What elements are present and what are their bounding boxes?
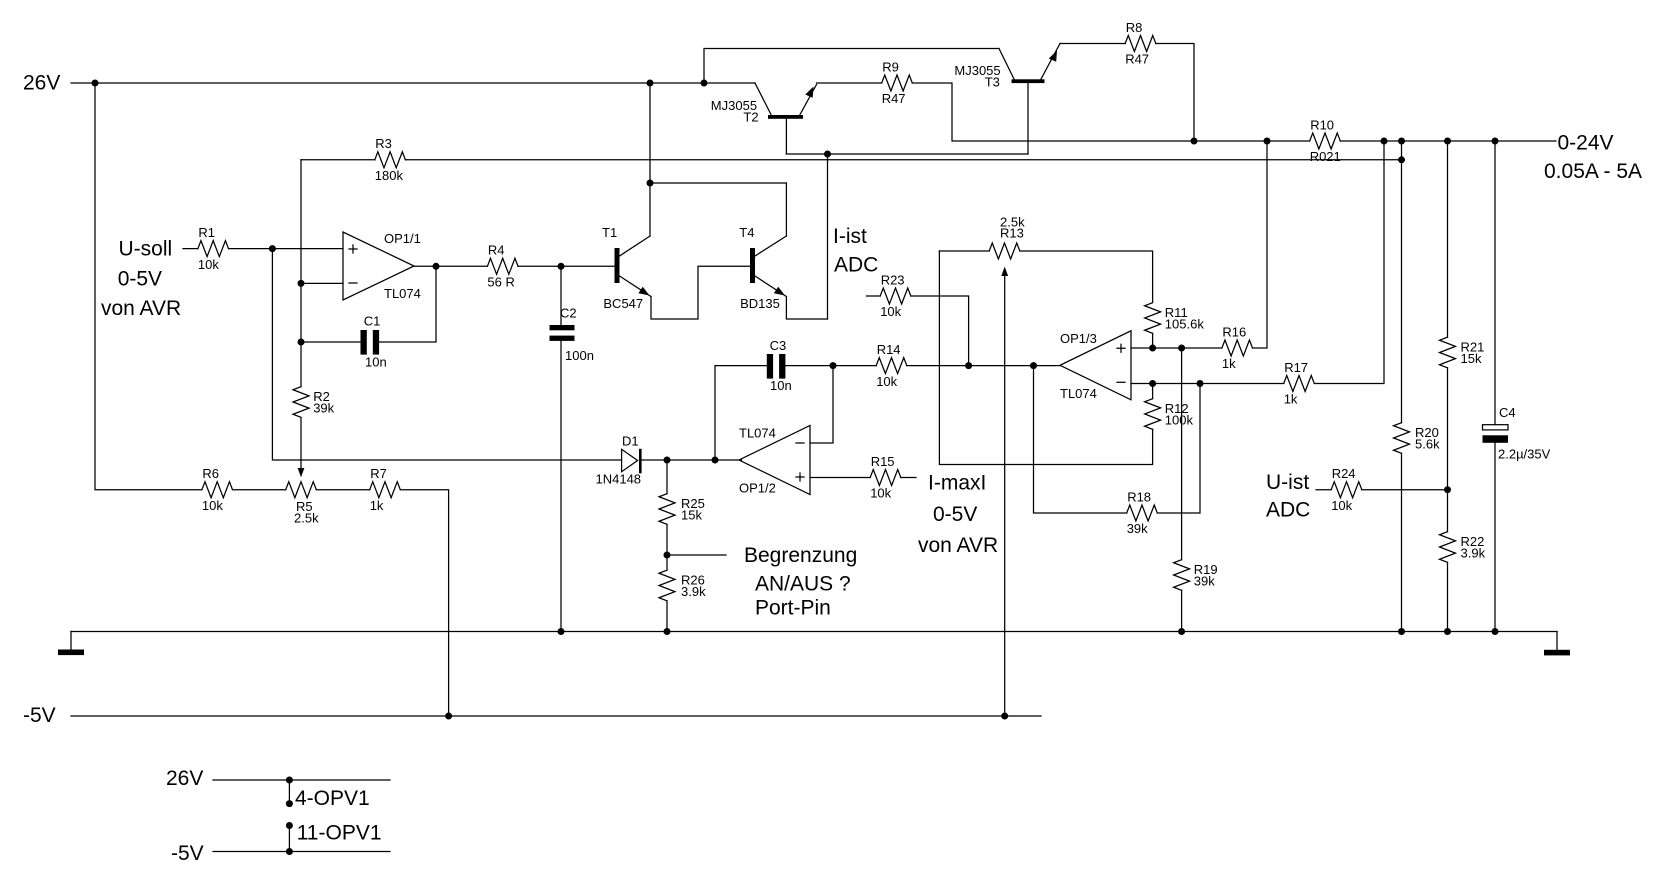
resistor R16: [1222, 324, 1253, 371]
wire R20 drop: [1401, 141, 1403, 423]
svg-text:Port-Pin: Port-Pin: [755, 597, 831, 620]
svg-text:1N4148: 1N4148: [596, 472, 642, 487]
wire R12 to box left: [939, 251, 1152, 465]
potentiometer R13 (2.5k): [989, 215, 1025, 260]
svg-text:von AVR: von AVR: [918, 534, 998, 557]
svg-text:10k: 10k: [1331, 498, 1352, 513]
junction R18 / - input: [1197, 380, 1204, 387]
wire 26V rail segment: [650, 82, 704, 84]
junction ground / R22: [1444, 628, 1451, 635]
wire OP1/3 - to R12: [1152, 384, 1154, 399]
wire to OP1/1 -: [301, 282, 343, 284]
wire OPV1 pin 11 stub: [288, 826, 290, 852]
wire divider stub (Port-Pin): [667, 554, 726, 556]
svg-text:C3: C3: [770, 338, 787, 353]
svg-text:C1: C1: [364, 314, 381, 329]
svg-text:10k: 10k: [880, 304, 901, 319]
junction 26V rail / T3 collector branch: [701, 80, 708, 87]
junction inverting node / C1: [298, 339, 305, 346]
wire R4 to T1 base: [518, 265, 615, 267]
transistor T2 (MJ3055): [711, 83, 817, 154]
wire U-soll input stub: [183, 248, 198, 250]
resistor R25: [659, 494, 705, 525]
svg-text:BD135: BD135: [740, 296, 780, 311]
junction output rail / R20 drop: [1398, 138, 1405, 145]
svg-text:TL074: TL074: [1060, 386, 1097, 401]
wire R1 to OP1/1 +: [229, 248, 344, 250]
svg-text:R1: R1: [198, 225, 215, 240]
wire R5 to R7: [316, 489, 369, 491]
svg-text:10n: 10n: [770, 378, 792, 393]
resistor R3: [375, 136, 406, 183]
wire OP1/1 output: [414, 265, 487, 267]
wire 26V stub: [71, 82, 95, 84]
wire OPV1 pin 4 stub: [288, 780, 290, 804]
svg-text:0-24V: 0-24V: [1558, 132, 1614, 155]
junction R1 / clamp node: [269, 245, 276, 252]
svg-text:AN/AUS ?: AN/AUS ?: [755, 573, 851, 596]
wire down to C2: [560, 266, 562, 325]
junction collector node: [647, 180, 654, 187]
wire R13 to R11: [1020, 251, 1153, 302]
resistor R6: [202, 466, 233, 513]
wire collector tie: [650, 182, 786, 184]
svg-text:T1: T1: [602, 225, 617, 240]
svg-text:-5V: -5V: [23, 704, 56, 727]
resistor R21: [1440, 337, 1485, 368]
wire R3 to output sense: [405, 159, 1401, 161]
wire R9 to output rail: [912, 83, 1194, 141]
wire R21 to R22: [1447, 368, 1449, 532]
resistor R23: [880, 272, 911, 319]
wire R19 to ground: [1181, 590, 1183, 631]
resistor R19: [1174, 560, 1218, 591]
junction output rail / C4 drop: [1492, 138, 1499, 145]
svg-text:10k: 10k: [870, 486, 891, 501]
svg-text:von AVR: von AVR: [101, 297, 181, 320]
resistor R14: [876, 342, 907, 389]
svg-text:T4: T4: [739, 225, 754, 240]
junction 26V/left drop: [92, 80, 99, 87]
wire -5V supply stub: [213, 851, 390, 853]
wire inverting node vertical: [300, 160, 302, 387]
svg-text:C2: C2: [560, 306, 577, 321]
svg-text:180k: 180k: [375, 168, 404, 183]
wire driver emitter riser: [827, 154, 829, 319]
wire 26V rail to T2 collector: [704, 82, 755, 84]
svg-text:OP1/3: OP1/3: [1060, 331, 1097, 346]
svg-text:R24: R24: [1332, 466, 1356, 481]
svg-text:2.2µ/35V: 2.2µ/35V: [1498, 447, 1551, 462]
wire to C1: [301, 341, 361, 343]
junction R23 / OP1/3 output wire: [965, 362, 972, 369]
wire base wire to T3 base: [828, 153, 1029, 155]
junction C3 / OP1/2 - riser: [830, 362, 837, 369]
junction output rail / R16: [1264, 138, 1271, 145]
svg-text:R3: R3: [375, 136, 392, 151]
svg-text:10k: 10k: [202, 498, 223, 513]
junction ground / C4: [1492, 628, 1499, 635]
wire -5V rail: [71, 715, 1041, 717]
wire 26V rail: [95, 82, 650, 84]
junction -5V stub: [286, 848, 293, 855]
resistor R18: [1127, 489, 1158, 536]
transistor T4 (BD135): [739, 225, 786, 311]
wire box to R13: [939, 250, 989, 252]
wire R6 to R5: [233, 489, 286, 491]
svg-text:I-maxI: I-maxI: [928, 472, 986, 495]
svg-text:2.5k: 2.5k: [294, 510, 319, 525]
resistor R11: [1145, 303, 1205, 334]
svg-text:R10: R10: [1310, 117, 1334, 132]
wiper arrow R5: [298, 468, 305, 477]
wire R18 left to output: [1034, 366, 1127, 513]
svg-text:3.9k: 3.9k: [681, 584, 706, 599]
wire C4 drop: [1494, 141, 1496, 425]
svg-text:39k: 39k: [313, 401, 334, 416]
svg-text:ADC: ADC: [1266, 499, 1310, 522]
wire T4 emitter: [786, 297, 827, 320]
svg-text:R17: R17: [1284, 360, 1308, 375]
resistor R20: [1394, 423, 1441, 454]
wire R13 wiper to -5V rail: [1004, 276, 1006, 716]
resistor R9: [882, 59, 913, 106]
svg-text:D1: D1: [622, 434, 639, 449]
wire T4 collector riser: [785, 183, 787, 236]
svg-text:U-ist: U-ist: [1266, 471, 1309, 494]
svg-text:T3: T3: [985, 75, 1000, 90]
junction R19 / + input: [1178, 345, 1185, 352]
wire R2 to R5 wiper: [300, 418, 302, 469]
svg-text:1k: 1k: [370, 498, 384, 513]
wire R23 stub: [867, 295, 881, 297]
svg-text:4-OPV1: 4-OPV1: [295, 787, 370, 810]
wire R16 up to output rail: [1253, 141, 1268, 348]
capacitor C3 (10n): [767, 338, 792, 393]
wire 26V supply stub: [213, 779, 390, 781]
svg-text:R7: R7: [370, 466, 387, 481]
svg-text:OP1/1: OP1/1: [384, 231, 421, 246]
op-amp U1C OP1/3 (TL074): [1060, 331, 1131, 401]
junction R18 / OP1/3 output wire: [1030, 362, 1037, 369]
svg-text:R9: R9: [882, 59, 899, 74]
junction 26V stub: [286, 777, 293, 784]
junction R3 line / R20 drop: [1398, 156, 1405, 163]
wire OP1/2 - input to C3/R14 node: [810, 366, 833, 443]
junction D1 / R25: [664, 457, 671, 464]
op-amp U1A OP1/1 (TL074): [343, 231, 421, 301]
potentiometer R5 (2.5k): [286, 482, 319, 526]
wire R23 to output node: [911, 296, 969, 366]
wire ground rail: [71, 631, 1557, 633]
junction 26V rail / T1-T4 collector drop: [647, 80, 654, 87]
wire T2 emitter to R9: [817, 82, 882, 84]
wire R7 to -5V rail: [400, 490, 448, 716]
wire OP1/3 - input: [1131, 383, 1284, 385]
wire C4 to ground: [1494, 443, 1496, 632]
svg-text:OP1/2: OP1/2: [739, 481, 776, 496]
svg-text:R15: R15: [871, 454, 895, 469]
wire OP1/3 + input: [1131, 347, 1222, 349]
wire R24 stub: [1316, 489, 1331, 491]
resistor R24: [1331, 466, 1362, 513]
svg-text:BC547: BC547: [603, 296, 643, 311]
transistor T3 (MJ3055): [954, 44, 1060, 155]
svg-text:R6: R6: [202, 466, 219, 481]
wire C2 to ground rail: [560, 341, 562, 632]
wire clamp node down to D1: [272, 249, 620, 460]
svg-text:R47: R47: [1125, 52, 1149, 67]
wire 26V drop to R6: [95, 83, 202, 490]
diode D1 (1N4148): [596, 434, 642, 487]
svg-text:1k: 1k: [1222, 356, 1236, 371]
ground symbol left: [58, 632, 84, 656]
wire to R25: [666, 460, 668, 494]
junction ground / C2: [558, 628, 565, 635]
junction output rail / R21 drop: [1444, 138, 1451, 145]
svg-text:R021: R021: [1310, 149, 1341, 164]
junction ground / R26: [664, 628, 671, 635]
svg-text:R13: R13: [1000, 226, 1024, 241]
svg-text:105.6k: 105.6k: [1165, 317, 1205, 332]
svg-text:U-soll: U-soll: [119, 237, 173, 260]
svg-text:T2: T2: [743, 110, 758, 125]
junction -5V / R7 branch: [445, 713, 452, 720]
resistor R12: [1145, 399, 1194, 430]
wire R8 to output rail: [1156, 44, 1194, 142]
resistor R4: [487, 243, 518, 290]
wire + input down to R19: [1181, 348, 1183, 560]
svg-text:R18: R18: [1127, 489, 1151, 504]
junction output rail / R17 drop: [1381, 138, 1388, 145]
svg-text:15k: 15k: [681, 508, 702, 523]
wire C1 to OP1/1 output: [379, 266, 436, 342]
svg-text:R14: R14: [877, 342, 901, 357]
wire R25 to R26: [666, 524, 668, 555]
wire R11 to OP1/3 +: [1152, 333, 1154, 348]
wire R3 left (to OP1/1 inverting node): [301, 159, 375, 161]
wire T3 collector branch: [704, 49, 999, 84]
svg-text:Begrenzung: Begrenzung: [744, 544, 857, 567]
junction driver emitters / base wire: [824, 151, 831, 158]
resistor R10 (shunt): [1310, 117, 1341, 164]
svg-text:0-5V: 0-5V: [118, 268, 162, 291]
resistor R15: [870, 454, 901, 501]
svg-text:11-OPV1: 11-OPV1: [297, 821, 382, 844]
wire R21 drop: [1447, 141, 1449, 337]
junction R8/output rail: [1191, 138, 1198, 145]
capacitor C2 (100n): [550, 306, 594, 364]
wire C3 to R14: [785, 365, 876, 367]
wire R14 to OP1/3 output: [907, 365, 1060, 367]
svg-text:R16: R16: [1222, 324, 1246, 339]
resistor R2: [293, 387, 335, 418]
junction R4 / C2: [558, 263, 565, 270]
wire output rail: [1194, 140, 1267, 142]
svg-text:3.9k: 3.9k: [1461, 546, 1486, 561]
svg-text:15k: 15k: [1461, 351, 1482, 366]
wire to R26: [666, 555, 668, 570]
svg-text:0-5V: 0-5V: [933, 503, 977, 526]
svg-text:39k: 39k: [1194, 574, 1215, 589]
transistor T1 (BC547): [602, 225, 651, 311]
junction output / C3 branch: [712, 457, 719, 464]
op-amp U1B OP1/2 (TL074): [739, 426, 810, 496]
svg-text:R23: R23: [881, 272, 905, 287]
wire output to C3: [715, 366, 767, 460]
svg-text:TL074: TL074: [739, 426, 776, 441]
wiper arrow R13: [1001, 267, 1008, 276]
svg-text:R4: R4: [488, 243, 505, 258]
pin 11 of OPV1: [286, 822, 293, 829]
capacitor C4 (2.2u/35V electrolytic): [1483, 405, 1551, 462]
resistor R8: [1125, 20, 1156, 67]
junction inverting node / OP1/1 -: [298, 280, 305, 287]
svg-text:10k: 10k: [198, 257, 219, 272]
svg-text:0.05A - 5A: 0.05A - 5A: [1544, 160, 1642, 183]
wire output rail to R10: [1267, 140, 1310, 142]
wire T3 emitter to R8: [1060, 43, 1125, 45]
wire R22 to ground: [1447, 562, 1449, 631]
wire T1 collector riser: [649, 83, 651, 236]
wire T2 base to junction: [786, 153, 827, 155]
svg-text:10n: 10n: [365, 355, 387, 370]
wire output rail to 0-24V: [1340, 140, 1556, 142]
wire R26 to ground: [666, 601, 668, 632]
capacitor C1 (10n): [361, 314, 387, 370]
svg-text:ADC: ADC: [834, 254, 878, 277]
svg-text:TL074: TL074: [384, 286, 421, 301]
junction ground / R20: [1398, 628, 1405, 635]
junction -5V / R13 wiper: [1001, 713, 1008, 720]
svg-text:26V: 26V: [23, 72, 60, 95]
junction R12 / - input: [1149, 380, 1156, 387]
junction R21-R22 / R24 (U-ist tap): [1444, 486, 1451, 493]
svg-text:56 R: 56 R: [487, 275, 514, 290]
resistor R1: [198, 225, 229, 272]
wire T1 emitter to T4 base: [651, 266, 750, 319]
wire R17 up to output rail: [1314, 141, 1384, 384]
svg-text:C4: C4: [1499, 405, 1516, 420]
resistor R22: [1440, 532, 1486, 563]
svg-text:100n: 100n: [565, 348, 594, 363]
svg-text:1k: 1k: [1284, 392, 1298, 407]
svg-text:-5V: -5V: [171, 842, 204, 865]
wire R24 to divider: [1362, 489, 1448, 491]
pin 4 of OPV1: [286, 800, 293, 807]
svg-text:26V: 26V: [166, 767, 203, 790]
svg-text:5.6k: 5.6k: [1415, 437, 1440, 452]
junction R25/R26 divider: [664, 552, 671, 559]
svg-text:R47: R47: [882, 91, 906, 106]
resistor R17: [1284, 360, 1315, 407]
wire R15 stub I-maxI: [901, 477, 916, 479]
svg-text:R8: R8: [1126, 20, 1143, 35]
junction output / C1 feedback: [433, 263, 440, 270]
junction ground / R19: [1178, 628, 1185, 635]
junction R11 / + input: [1149, 345, 1156, 352]
wire R18 right to - input: [1157, 384, 1200, 514]
resistor R7: [370, 466, 401, 513]
svg-text:100k: 100k: [1165, 413, 1194, 428]
wire OP1/2 + input to R15: [810, 477, 870, 479]
svg-text:I-ist: I-ist: [833, 225, 867, 248]
resistor R26: [659, 570, 706, 601]
wire R20 to ground: [1401, 453, 1403, 631]
ground symbol right: [1544, 632, 1570, 656]
wire D1 to OP1/2 output: [642, 459, 742, 461]
svg-text:39k: 39k: [1127, 521, 1148, 536]
svg-text:10k: 10k: [876, 374, 897, 389]
